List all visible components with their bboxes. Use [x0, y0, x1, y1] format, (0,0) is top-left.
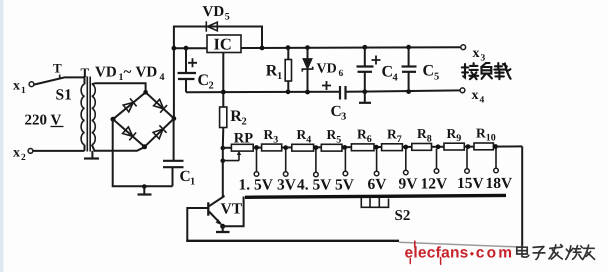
svg-text:R: R [230, 108, 242, 125]
svg-text:6: 6 [367, 134, 372, 145]
svg-text:6: 6 [339, 69, 344, 79]
svg-text:5V: 5V [335, 177, 355, 194]
svg-text:1: 1 [21, 86, 26, 96]
svg-text:6V: 6V [368, 176, 388, 193]
svg-text:VD: VD [95, 65, 117, 81]
svg-text:R: R [476, 125, 486, 140]
svg-text:VT: VT [221, 201, 243, 218]
svg-text:R: R [447, 126, 457, 141]
svg-text:R: R [387, 127, 397, 142]
svg-text:R: R [297, 127, 307, 142]
svg-text:R: R [327, 127, 337, 142]
svg-text:4. 5V: 4. 5V [297, 177, 332, 194]
svg-text:4: 4 [306, 134, 311, 145]
svg-text:R: R [417, 126, 427, 141]
svg-text:x: x [13, 146, 20, 161]
svg-text:1: 1 [277, 71, 282, 82]
svg-text:x: x [473, 46, 480, 61]
svg-text:~: ~ [124, 65, 132, 81]
svg-text:9: 9 [456, 133, 461, 144]
svg-text:R: R [264, 127, 274, 142]
svg-text:10: 10 [486, 133, 496, 144]
svg-text:S2: S2 [395, 208, 411, 224]
svg-text:5: 5 [336, 134, 341, 145]
svg-text:5: 5 [434, 72, 439, 83]
svg-text:IC: IC [214, 35, 232, 54]
svg-text:1. 5V: 1. 5V [239, 177, 274, 194]
svg-text:VD: VD [136, 65, 158, 81]
svg-text:5: 5 [225, 12, 230, 23]
svg-text:7: 7 [397, 134, 402, 145]
svg-text:4: 4 [480, 96, 485, 106]
svg-text:2: 2 [21, 153, 26, 163]
svg-text:8: 8 [427, 134, 432, 145]
svg-text:12V: 12V [421, 176, 449, 193]
svg-text:VD: VD [203, 4, 225, 20]
svg-text:VD: VD [317, 62, 337, 77]
svg-text:2: 2 [242, 116, 247, 127]
svg-text:2: 2 [209, 81, 214, 92]
svg-text:R: R [266, 63, 278, 80]
svg-text:x: x [472, 88, 479, 103]
svg-text:T: T [81, 65, 90, 80]
svg-text:C: C [198, 72, 210, 89]
svg-text:3V: 3V [277, 177, 297, 194]
svg-text:R: R [357, 127, 367, 142]
svg-text:3: 3 [341, 112, 346, 123]
svg-text:4: 4 [160, 72, 165, 83]
svg-text:S1: S1 [56, 87, 72, 104]
svg-text:4: 4 [393, 73, 399, 84]
svg-text:1: 1 [190, 177, 195, 188]
svg-text:com: com [476, 245, 514, 262]
svg-text:3: 3 [481, 54, 486, 64]
svg-text:x: x [13, 79, 20, 94]
svg-text:C: C [423, 63, 435, 80]
svg-text:15V: 15V [457, 175, 485, 192]
svg-text:C: C [382, 64, 394, 81]
svg-text:RP: RP [234, 131, 253, 147]
svg-text:9V: 9V [399, 176, 419, 193]
svg-text:T: T [53, 61, 62, 76]
svg-text:18V: 18V [486, 175, 514, 192]
svg-text:3: 3 [273, 134, 278, 145]
